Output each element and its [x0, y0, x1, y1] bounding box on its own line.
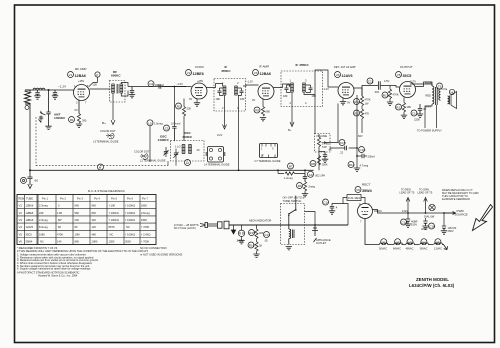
svg-text:84VAC: 84VAC	[393, 247, 401, 251]
wire tuning cap stator	[149, 126, 151, 162]
capacitor trimmer lead	[53, 90, 57, 96]
svg-text:DET−1ST AF AMP: DET−1ST AF AMP	[334, 65, 356, 69]
cathode wire	[78, 101, 80, 114]
resistor 4.7meg	[348, 162, 354, 168]
svg-text:† 2.6KΩ: † 2.6KΩ	[141, 232, 150, 236]
output transformer T5	[432, 86, 441, 105]
svg-text:† 100KΩ: † 100KΩ	[125, 218, 135, 222]
power cord and interlock plug	[200, 221, 313, 229]
svg-text:TAP: TAP	[322, 145, 327, 149]
svg-text:TUBE) SWITCH: TUBE) SWITCH	[283, 199, 302, 203]
ground	[129, 95, 135, 98]
svg-text:† 100KΩ: † 100KΩ	[125, 232, 135, 236]
svg-text:1 Meg: 1 Meg	[322, 142, 330, 146]
svg-text:1.0meg: 1.0meg	[154, 122, 163, 126]
svg-text:12VAC: 12VAC	[434, 247, 442, 251]
svg-text:RED: RED	[426, 94, 432, 98]
wire 47K down to B+ and 82V label	[361, 119, 363, 133]
resistor 22K	[182, 107, 185, 117]
svg-text:V1: V1	[19, 204, 23, 208]
svg-text:C14: C14	[323, 201, 329, 205]
svg-text:RECT: RECT	[362, 183, 371, 187]
OSC trimmer 1400KC	[164, 147, 169, 157]
svg-text:R10: R10	[354, 100, 360, 104]
svg-text:Pin 3: Pin 3	[77, 197, 83, 201]
svg-text:R3: R3	[177, 105, 181, 109]
svg-text:IF 455KC: IF 455KC	[296, 63, 310, 67]
svg-text:455KC: 455KC	[221, 69, 231, 73]
svg-text:Pin 2: Pin 2	[60, 197, 66, 201]
wire grid to V5	[390, 86, 400, 88]
resistor 390 cathode	[77, 114, 80, 124]
node ref R5	[254, 107, 260, 113]
series capacitor on grid wire	[159, 84, 161, 88]
svg-text:R1: R1	[70, 118, 74, 122]
svg-text:T5: T5	[438, 85, 442, 89]
svg-text:C4: C4	[149, 82, 153, 86]
fusible resistor box	[347, 195, 361, 201]
wire switch out to appliance outlet	[296, 196, 315, 226]
svg-text:−1.2V: −1.2V	[246, 80, 253, 84]
wire T4 pin2 to B+	[290, 93, 294, 127]
wire T1 to B+	[111, 93, 115, 125]
svg-text:V3: V3	[254, 71, 258, 75]
svg-text:22K: 22K	[39, 211, 44, 215]
svg-text:470K: 470K	[57, 232, 63, 236]
node ref circle	[69, 117, 75, 123]
dial lamp	[429, 204, 435, 210]
RF transformer T1 dashed box	[110, 81, 126, 103]
svg-text:560: 560	[75, 211, 80, 215]
svg-text:★ NOT USED IN SOME VERSIONS: ★ NOT USED IN SOME VERSIONS	[140, 253, 182, 257]
svg-text:2200: 2200	[414, 118, 420, 122]
svg-text:NC: NC	[110, 232, 114, 236]
line capacitor .047	[332, 204, 348, 226]
wire V2 grid	[162, 86, 192, 88]
svg-text:† 470K: † 470K	[141, 225, 149, 229]
svg-text:8.3meg: 8.3meg	[39, 225, 48, 229]
svg-text:V3: V3	[19, 218, 23, 222]
svg-text:R15: R15	[249, 231, 255, 235]
svg-text:680: 680	[266, 110, 271, 114]
wire V4 plate	[354, 88, 362, 96]
svg-text:Pin 5: Pin 5	[111, 197, 117, 201]
svg-text:# THIS READING WILL VARY DEP: # THIS READING WILL VARY DEPENDING UPON …	[17, 249, 149, 253]
ANT trimmer capacitor	[40, 111, 51, 126]
wire V2 cathode to 22K	[183, 99, 185, 107]
svg-text:117V: 117V	[410, 80, 416, 84]
svg-text:R12: R12	[383, 94, 389, 98]
svg-text:ITEM: ITEM	[18, 197, 24, 201]
pin numbers T3	[222, 81, 239, 110]
svg-text:82V: 82V	[358, 134, 363, 138]
svg-text:180: 180	[283, 94, 288, 98]
svg-text:† 100KΩ: † 100KΩ	[125, 211, 135, 215]
svg-text:−1.2V: −1.2V	[322, 87, 329, 91]
svg-text:4.5V: 4.5V	[384, 79, 390, 83]
svg-text:BRN: BRN	[426, 105, 432, 109]
volume pot resistor	[317, 137, 320, 147]
wire volume bottom to bus	[318, 153, 320, 171]
wire T4 secondary to detector	[304, 93, 315, 135]
svg-text:1080: 1080	[39, 232, 45, 236]
note WHEN REPLACING C1	[442, 188, 479, 201]
svg-text:150V: 150V	[411, 223, 417, 227]
ground V3 cathode	[260, 118, 266, 121]
V3 cathode wire	[262, 100, 264, 107]
heater V3	[407, 239, 413, 245]
svg-text:.002: .002	[374, 90, 380, 94]
svg-text:TO POWER SUPPLY: TO POWER SUPPLY	[417, 129, 442, 133]
filter cap C1B 40MF	[425, 218, 427, 221]
svg-text:C1C: C1C	[359, 148, 366, 152]
svg-text:150K: 150K	[322, 163, 328, 167]
svg-text:470K: 470K	[365, 98, 371, 102]
loopstick winding bumps	[33, 88, 45, 90]
svg-text:COLOR DOT: COLOR DOT	[100, 129, 116, 133]
svg-text:+45V: +45V	[78, 79, 84, 83]
svg-text:R14: R14	[349, 163, 355, 167]
svg-text:180: 180	[216, 97, 221, 101]
svg-text:80*: 80*	[58, 218, 62, 222]
ground below switch	[286, 247, 292, 250]
svg-text:SOURCE: SOURCE	[455, 213, 468, 217]
svg-text:NC: NC	[40, 240, 44, 244]
osc tuning cap C1B arrow to gang line	[168, 159, 176, 166]
tuning gang capacitor C1A arrow	[39, 116, 44, 123]
wire V3 plate to IF2	[274, 84, 290, 88]
svg-text:DIAL 6W: DIAL 6W	[424, 215, 435, 219]
svg-text:3000: 3000	[125, 240, 131, 244]
resistor 680 cathode V3	[261, 107, 264, 117]
svg-text:† 100KΩ: † 100KΩ	[109, 218, 119, 222]
svg-text:† 100KΩ: † 100KΩ	[109, 211, 119, 215]
junction dot node	[48, 89, 50, 91]
capacitor 60	[28, 170, 33, 182]
svg-text:320: 320	[92, 218, 97, 222]
svg-text:1400KC: 1400KC	[158, 138, 170, 142]
table header row	[18, 197, 149, 201]
node ref T5	[437, 83, 443, 89]
svg-text:240: 240	[75, 218, 80, 222]
svg-text:12AV6: 12AV6	[26, 225, 34, 229]
svg-text:600KC: 600KC	[183, 135, 193, 139]
tube V6 35W4	[358, 204, 373, 219]
svg-text:0V: 0V	[347, 101, 350, 105]
svg-text:12AV6: 12AV6	[342, 74, 353, 78]
wire V6 plate line 122V	[373, 210, 454, 214]
ground cathode	[76, 124, 82, 127]
svg-text:+25V: +25V	[197, 79, 203, 83]
svg-text:200mf: 200mf	[368, 155, 375, 159]
capacitor C1A tap	[35, 90, 39, 96]
T3 primary cap	[218, 88, 224, 96]
svg-text:60: 60	[35, 179, 39, 183]
svg-text:0V: 0V	[189, 97, 192, 101]
wire fuse to 35W4 heater	[343, 198, 365, 204]
T1 secondary winding	[120, 84, 123, 93]
svg-text:† 100KΩ: † 100KΩ	[125, 204, 135, 208]
svg-text:890: 890	[75, 240, 80, 244]
T4 secondary cap	[306, 85, 313, 93]
svg-text:C12: C12	[412, 112, 418, 116]
svg-text:B+: B+	[288, 128, 292, 132]
pin labels	[74, 84, 89, 105]
capacitor .002 MFD	[303, 174, 307, 182]
T3 secondary winding	[235, 86, 238, 95]
svg-text:840: 840	[92, 211, 97, 215]
svg-text:L3 TERMINAL GUIDE: L3 TERMINAL GUIDE	[93, 140, 119, 144]
svg-text:C9: C9	[309, 173, 313, 177]
ground tone chain	[304, 191, 306, 193]
svg-text:V1: V1	[69, 73, 73, 77]
svg-text:ELIMINATE FEEDBACK: ELIMINATE FEEDBACK	[442, 197, 470, 201]
svg-text:12BA6: 12BA6	[26, 204, 34, 208]
svg-text:3K: 3K	[259, 244, 262, 248]
svg-text:12BE6: 12BE6	[26, 211, 34, 215]
capacitor .02 bypass	[319, 151, 325, 153]
big callout arrow	[473, 205, 493, 231]
svg-text:9.2V: 9.2V	[217, 133, 223, 137]
svg-text:R9: R9	[298, 184, 302, 188]
svg-text:1.2meg: 1.2meg	[284, 176, 293, 180]
T4 primary winding	[291, 83, 294, 92]
node ref C13	[264, 232, 270, 238]
svg-text:NEON INDICATOR: NEON INDICATOR	[249, 219, 271, 223]
node ref L5	[147, 120, 153, 126]
svg-text:960: 960	[92, 204, 97, 208]
svg-text:60 CYCLE (LOCK): 60 CYCLE (LOCK)	[174, 226, 196, 230]
antenna terminal lug	[25, 106, 29, 110]
svg-text:D-C & STAGE READINGS: D-C & STAGE READINGS	[88, 189, 125, 193]
wire V2 plate to IF1	[207, 84, 223, 88]
svg-text:4.7meg: 4.7meg	[360, 164, 369, 168]
svg-text:48VAC: 48VAC	[406, 247, 414, 251]
ground	[34, 96, 40, 99]
svg-text:V6: V6	[356, 188, 360, 192]
svg-text:50VAC: 50VAC	[379, 247, 387, 251]
electrolytic 200mf	[357, 155, 362, 157]
T1 core lines	[117, 84, 118, 94]
svg-text:12BA6: 12BA6	[75, 74, 86, 78]
svg-text:180: 180	[240, 97, 245, 101]
svg-text:.002 1PA: .002 1PA	[315, 174, 326, 178]
svg-text:Pin 6: Pin 6	[127, 197, 133, 201]
wire antenna coil to AVC bus	[29, 90, 31, 170]
wire T1 secondary to V2 grid	[121, 83, 186, 97]
svg-text:Pin 4: Pin 4	[94, 197, 100, 201]
tube V2 12BE6 converter	[191, 83, 207, 99]
chassis arrow ground	[231, 225, 235, 234]
svg-text:35C5: 35C5	[403, 74, 412, 78]
svg-text:V4: V4	[336, 73, 340, 77]
wire grid	[73, 89, 76, 91]
svg-text:94VAC: 94VAC	[374, 209, 382, 213]
svg-text:RF AMP: RF AMP	[75, 67, 87, 71]
svg-text:1800: 1800	[141, 218, 147, 222]
wire V5 plate to output transformer	[416, 82, 433, 87]
svg-text:L634C/P/W (Ch. 6L03): L634C/P/W (Ch. 6L03)	[409, 283, 455, 288]
wire junction down to ANT trimmer	[48, 90, 50, 112]
tube V4 12AV6	[338, 83, 354, 99]
L4 terminal guide	[204, 147, 230, 167]
heater V4	[421, 239, 427, 245]
svg-text:R13: R13	[396, 106, 402, 110]
svg-text:M: M	[99, 166, 102, 170]
coupling capacitor .002 to V5 grid	[367, 78, 373, 84]
heater string wire	[365, 219, 448, 250]
svg-text:150V: 150V	[448, 229, 454, 233]
V5 cathode resistor 180	[403, 98, 405, 103]
volume wiper arrow	[322, 142, 327, 144]
svg-text:2.3meg: 2.3meg	[39, 204, 48, 208]
wire to red lead of T5	[406, 198, 410, 214]
svg-text:V5: V5	[397, 73, 401, 77]
svg-text:35W4: 35W4	[362, 189, 373, 193]
AVC bus wire	[30, 169, 314, 171]
svg-text:FUS. RES.: FUS. RES.	[348, 196, 361, 200]
svg-text:122V: 122V	[402, 209, 408, 213]
pin labels V6	[359, 202, 370, 224]
tuning gang C1B	[174, 149, 179, 159]
svg-text:2.6meg: 2.6meg	[141, 211, 150, 215]
svg-text:L2: L2	[186, 161, 190, 165]
svg-text:C11: C11	[368, 80, 374, 84]
node ref 100mmf grid cap V2	[148, 81, 154, 87]
svg-text:1080: 1080	[92, 240, 98, 244]
screen bypass cap .05	[411, 110, 417, 116]
screen pin circle	[95, 72, 100, 77]
table rows V1-V6	[19, 204, 151, 244]
svg-text:R16: R16	[249, 244, 255, 248]
T3 primary winding	[223, 86, 226, 95]
heater V1	[381, 239, 387, 245]
phono jack J1	[21, 177, 27, 183]
svg-text:47K: 47K	[365, 112, 370, 116]
node ref C6 below osc box	[185, 160, 191, 166]
tube V3 12BA6 IF amp	[258, 84, 274, 100]
svg-text:V2: V2	[19, 211, 23, 215]
node ref C14	[164, 125, 170, 131]
wire to green lead of T5	[424, 198, 428, 214]
svg-text:L5: L5	[148, 121, 152, 125]
node ref R8 150K	[310, 161, 316, 167]
wire AVC branch	[278, 170, 305, 173]
svg-text:86TK: 86TK	[109, 225, 115, 229]
wire T3 pin2 to B+ arrow 9.2V	[223, 95, 227, 129]
svg-text:OUTPUT: OUTPUT	[400, 65, 413, 69]
tube V1 12BA6	[74, 85, 90, 101]
svg-text:TUBE: TUBE	[26, 197, 33, 201]
svg-text:C5: C5	[165, 127, 169, 131]
svg-text:L2 TERMINAL GUIDE: L2 TERMINAL GUIDE	[140, 159, 166, 163]
svg-text:LEAD OF T5: LEAD OF T5	[418, 191, 433, 195]
svg-text:V6: V6	[19, 240, 23, 244]
wire plate to RF transformer	[90, 88, 111, 90]
capacitor to ground after T1	[130, 87, 134, 95]
svg-text:−1.5V: −1.5V	[176, 82, 183, 86]
antenna loop coil L1	[25, 90, 31, 104]
svg-text:COLOR DOT: COLOR DOT	[134, 150, 150, 154]
svg-text:C7 TERMINAL GUIDE: C7 TERMINAL GUIDE	[255, 159, 281, 163]
svg-text:C15: C15	[340, 141, 346, 145]
switch contacts	[288, 204, 297, 230]
svg-text:V2: V2	[187, 71, 191, 75]
dashed gang linkage	[36, 117, 168, 166]
svg-text:ZENITH MODEL: ZENITH MODEL	[416, 277, 449, 282]
IF transformer T3 dashed box	[214, 79, 246, 112]
svg-text:600KC: 600KC	[111, 74, 121, 78]
IF transformer T4 dashed box	[281, 71, 323, 107]
svg-text:Howard W. Sams & Co., Inc. 195: Howard W. Sams & Co., Inc. 1954	[38, 274, 78, 278]
T4 secondary winding	[303, 83, 306, 92]
svg-text:2meg: 2meg	[309, 185, 316, 189]
svg-text:180: 180	[407, 105, 412, 109]
coupling cap .22 line	[330, 147, 357, 149]
svg-text:1280: 1280	[109, 240, 115, 244]
svg-text:470K: 470K	[393, 93, 399, 97]
svg-text:36VAC: 36VAC	[420, 247, 428, 251]
svg-text:12BA6: 12BA6	[26, 218, 34, 222]
svg-text:6. Supply voltage maintained: 6. Supply voltage maintained at rated va…	[17, 267, 91, 271]
on-off switch S1 dashed box	[281, 204, 305, 245]
wire T3 secondary to V3 grid	[243, 85, 259, 86]
svg-text:100mmf: 100mmf	[171, 122, 181, 126]
svg-text:R7: R7	[289, 165, 293, 169]
neon lamp NE51	[241, 225, 243, 230]
svg-text:12K: 12K	[93, 83, 98, 87]
svg-text:OUTLET: OUTLET	[316, 241, 327, 245]
svg-text:390: 390	[82, 119, 87, 123]
svg-text:12BE6: 12BE6	[193, 72, 204, 76]
svg-text:1.80: 1.80	[57, 211, 63, 215]
speaker voice coil	[449, 89, 454, 94]
resistor 2meg	[303, 182, 306, 192]
wire T3 pin4 down to bus	[238, 95, 240, 170]
svg-text:R8: R8	[311, 162, 315, 166]
svg-text:LEAD OF T5: LEAD OF T5	[400, 191, 415, 195]
arrow to external antenna	[28, 182, 32, 189]
ground	[52, 96, 58, 99]
tube V5 35C5	[400, 82, 416, 98]
tube-readings table frame	[17, 195, 156, 245]
wire volume wiper to V4 grid	[326, 104, 338, 143]
heater V5	[435, 239, 441, 245]
arrow PWR SOURCE	[449, 212, 456, 215]
T4 primary cap	[285, 85, 291, 93]
svg-text:V4: V4	[19, 225, 23, 229]
ground V2 cathode 2	[196, 99, 198, 103]
T2 winding 2	[189, 145, 192, 154]
notes under table	[17, 246, 182, 278]
svg-text:.05: .05	[264, 239, 268, 243]
T2 winding 1	[182, 145, 185, 154]
svg-text:12BA6: 12BA6	[260, 72, 271, 76]
svg-text:C1B: C1B	[429, 225, 435, 229]
wire 22K to osc coil	[183, 116, 185, 141]
svg-text:35W4: 35W4	[26, 240, 33, 244]
svg-text:140: 140	[57, 240, 62, 244]
svg-text:R11: R11	[354, 112, 360, 116]
svg-text:.22: .22	[340, 151, 344, 155]
node ref R7 and resistor 1.2meg on AVC bus	[288, 163, 294, 169]
svg-text:† 700K: † 700K	[141, 240, 149, 244]
wire top antenna line	[30, 89, 74, 91]
svg-text:1800: 1800	[141, 204, 147, 208]
appliance outlet symbol	[312, 225, 318, 242]
wire AC line right of switch	[313, 224, 348, 226]
svg-text:640: 640	[75, 204, 80, 208]
